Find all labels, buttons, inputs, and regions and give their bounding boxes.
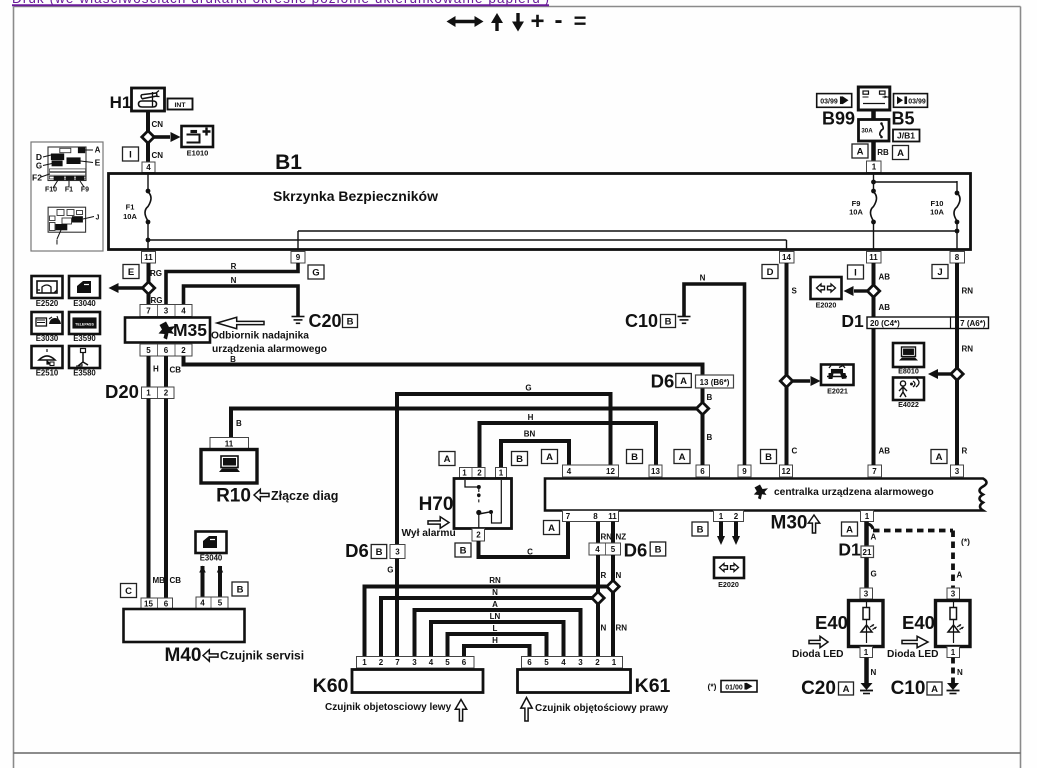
svg-text:13 (B6*): 13 (B6*)	[700, 378, 730, 387]
label E2020 (top)	[816, 301, 837, 310]
svg-text:E40: E40	[902, 612, 935, 633]
connector box B (M30 top2)	[627, 450, 643, 464]
wire label G (E40)	[871, 570, 877, 579]
label K61	[635, 675, 671, 697]
fuse box pin 11 right	[867, 252, 882, 264]
svg-text:9: 9	[742, 467, 747, 476]
pictogram E3590	[69, 312, 100, 334]
svg-text:E: E	[128, 267, 134, 278]
wire label N (C10)	[700, 274, 706, 283]
annotation arrow (M40)	[203, 650, 218, 661]
fuse box pin 1	[867, 161, 882, 173]
label E40 left	[815, 612, 848, 633]
svg-text:6: 6	[164, 346, 169, 355]
internal wire F1 to pin 14	[146, 238, 787, 250]
svg-text:B: B	[655, 544, 662, 555]
svg-text:CN: CN	[152, 151, 164, 160]
label E3040 (service)	[200, 554, 223, 563]
svg-text:11: 11	[869, 253, 878, 262]
svg-text:R: R	[601, 571, 607, 580]
annotation text Zlacze diag	[271, 489, 338, 503]
wire label AB upper	[879, 273, 891, 282]
wire arc H (K60 pin6 to K61 pin6)	[464, 646, 530, 657]
svg-text:RN: RN	[962, 287, 974, 296]
wire B branch to R10	[231, 409, 703, 438]
svg-text:N: N	[492, 588, 498, 597]
D1 pin 21	[861, 546, 874, 558]
wire N (C10 ground to M30 pin9)	[684, 284, 745, 465]
svg-text:B: B	[516, 454, 523, 465]
component H1 (siren) box	[132, 88, 165, 111]
label E2510	[36, 369, 59, 378]
wire label RN (arc)	[489, 576, 501, 585]
E40 right pin 3	[947, 588, 960, 599]
svg-text:G: G	[312, 267, 319, 278]
wire label CN (upper)	[152, 120, 164, 129]
alarm switch H70 box	[454, 479, 512, 529]
svg-text:F9: F9	[81, 187, 89, 194]
wire label MB	[153, 576, 166, 585]
pictogram E2020 (top)	[811, 277, 842, 299]
svg-text:RN: RN	[962, 345, 974, 354]
connector box B (M30 top4)	[761, 450, 777, 464]
fuse F10 label	[930, 199, 944, 217]
annotation text Czujnik servisi	[220, 649, 304, 663]
wire arc A (K60 pin3 to K61 pin3)	[415, 610, 581, 657]
svg-text:E4022: E4022	[898, 400, 919, 409]
svg-text:AB: AB	[879, 303, 891, 312]
arrow to E2020 top	[844, 286, 868, 296]
svg-text:A: A	[897, 148, 904, 159]
wire D20 pin2 to M40 pin6 (CB)	[164, 399, 168, 599]
svg-text:C: C	[527, 548, 533, 557]
connector box G	[308, 265, 324, 279]
svg-text:D6: D6	[624, 540, 648, 561]
label E3040	[73, 299, 96, 308]
svg-text:(*): (*)	[961, 537, 970, 547]
svg-text:7: 7	[395, 658, 400, 667]
label C10 A	[891, 678, 942, 699]
svg-text:E: E	[95, 158, 101, 168]
pictogram E2510	[32, 346, 63, 368]
svg-text:urządzenia alarmowego: urządzenia alarmowego	[212, 344, 327, 355]
wire label B (to M30)	[707, 433, 713, 442]
svg-text:C20: C20	[308, 311, 341, 331]
label (*) dashed	[961, 537, 970, 547]
connector box B (M30 bottom mid)	[692, 522, 708, 536]
label C10	[625, 311, 658, 331]
arrow wire E3040 to M40 pin5	[217, 566, 223, 598]
wire G (M30 pin12 to K60 pin7)	[397, 394, 611, 544]
svg-text:12: 12	[606, 467, 615, 476]
label E3030	[36, 334, 59, 343]
label B5	[891, 109, 914, 129]
ground C20 A	[860, 683, 873, 694]
label H1	[110, 93, 132, 112]
svg-text:(*): (*)	[708, 682, 717, 692]
service sensor M40 box	[124, 609, 245, 642]
wire D20 pin1 to M40 pin15 (MB)	[147, 399, 151, 599]
svg-text:D1: D1	[841, 311, 864, 331]
svg-text:A: A	[957, 571, 963, 580]
dashed wire E40 right to ground (N)	[951, 658, 955, 684]
svg-text:5: 5	[445, 658, 450, 667]
svg-text:20 (C4*): 20 (C4*)	[870, 319, 900, 328]
connector box B (M40)	[232, 582, 248, 596]
svg-text:A: A	[931, 684, 938, 695]
wire label CB (M35)	[170, 366, 182, 375]
M30 bottom pins 1 2	[714, 511, 744, 522]
connector D20 label	[105, 381, 139, 402]
connector box A (battery left)	[852, 144, 868, 158]
svg-text:4: 4	[146, 163, 151, 172]
pictogram E3040 (service)	[196, 532, 227, 554]
wire label L (arc)	[493, 624, 498, 633]
connector box D	[762, 265, 778, 279]
volume sensor K61 box	[518, 670, 631, 693]
svg-text:E2520: E2520	[36, 299, 59, 308]
annotation text Czujnik objetosciowy prawy	[535, 703, 669, 714]
svg-text:G: G	[36, 162, 42, 171]
pictogram E8010	[893, 343, 924, 367]
arrow wire E3040 to M40 pin4	[199, 566, 206, 598]
svg-text:B: B	[665, 316, 672, 327]
H70 top pin 1b	[496, 468, 507, 478]
wire fuse pin14 to M30 pin12b (S/C)	[785, 263, 789, 465]
junction diamond H1	[142, 131, 154, 143]
fuse box B1 (Skrzynka Bezpiecznikow)	[109, 174, 971, 250]
wire label B (M35)	[230, 355, 236, 364]
svg-text:N: N	[700, 274, 706, 283]
wire label R	[231, 262, 237, 271]
connector box I (H1 branch)	[123, 147, 139, 161]
svg-text:A: A	[843, 684, 850, 695]
svg-text:13: 13	[651, 467, 660, 476]
svg-text:S: S	[792, 287, 798, 296]
svg-text:RB: RB	[877, 148, 889, 157]
annotation arrow (E40 right)	[902, 636, 928, 647]
svg-text:LN: LN	[490, 612, 501, 621]
label E2520	[36, 299, 59, 308]
svg-text:15: 15	[144, 599, 153, 608]
svg-text:9: 9	[296, 253, 301, 262]
annotation arrow (K61)	[521, 698, 532, 722]
svg-text:5: 5	[611, 545, 616, 554]
svg-text:B: B	[765, 452, 772, 463]
svg-text:Skrzynka Bezpieczników: Skrzynka Bezpieczników	[273, 188, 438, 204]
M40 pins 15 6	[141, 598, 173, 609]
svg-text:J: J	[96, 215, 100, 222]
wire M35 pin2 to D6 13 (B)	[184, 356, 703, 375]
connector strip D1 20/7	[867, 317, 989, 329]
wire M35 pin4 to ground C20 (N)	[184, 286, 299, 316]
wire label C (M30 12b)	[792, 447, 798, 456]
M30 bottom pins 7 8 11	[563, 511, 619, 522]
battery symbol E1010 box	[182, 126, 214, 147]
svg-text:30A: 30A	[861, 128, 873, 135]
wire label RG upper	[150, 269, 162, 278]
label D6 B (sensors)	[624, 540, 666, 561]
M30 top pin 12b	[780, 465, 793, 477]
connector box A (H70 left)	[439, 452, 455, 466]
wire fusible link to fuse box pin 1	[871, 141, 876, 161]
annotation text Dioda LED right	[887, 649, 939, 660]
svg-text:centralka urządzena alarmowego: centralka urządzena alarmowego	[774, 487, 934, 498]
H70 top pins 1 2	[460, 468, 486, 478]
LED module E40 right box	[936, 599, 971, 647]
svg-text:B: B	[631, 452, 638, 463]
wire label RB	[877, 148, 889, 157]
wire label H (M35)	[153, 365, 159, 374]
svg-text:J/B1: J/B1	[897, 131, 915, 141]
M40 pins 4 5	[196, 597, 228, 609]
label H70	[419, 494, 454, 515]
svg-text:C20: C20	[801, 678, 836, 699]
svg-text:F1: F1	[126, 203, 135, 212]
svg-text:A: A	[548, 523, 555, 534]
svg-text:CN: CN	[152, 120, 164, 129]
pictogram E2021	[821, 365, 854, 386]
wire H (H70 pin2 to M30 pin13)	[480, 423, 657, 477]
connector D6 B label (pin3)	[345, 540, 387, 561]
volume sensor K60 box	[352, 670, 483, 693]
svg-text:7 (A6*): 7 (A6*)	[960, 319, 986, 328]
svg-text:5: 5	[218, 599, 223, 608]
wire M30 pin11 to D6 pin5 (NZ)	[611, 522, 615, 544]
wire label RN (J upper)	[962, 287, 974, 296]
wire label R (K61)	[601, 571, 607, 580]
svg-text:A: A	[871, 533, 877, 542]
svg-text:2: 2	[181, 346, 186, 355]
alarm control unit M30 box	[545, 479, 987, 511]
label E3590	[73, 334, 96, 343]
svg-text:7: 7	[146, 306, 151, 315]
svg-text:4: 4	[561, 658, 566, 667]
annotation text urzadzenia alarmowego	[212, 344, 327, 355]
svg-text:C: C	[125, 586, 132, 597]
wire arc LN (K60 pin4 to K61 pin4)	[431, 622, 564, 657]
dashed branch to (*)	[868, 524, 953, 588]
svg-text:K61: K61	[635, 675, 671, 697]
svg-text:TELEPASS: TELEPASS	[75, 323, 94, 327]
wire label RG lower	[151, 296, 163, 305]
svg-text:11: 11	[225, 439, 234, 448]
svg-text:3: 3	[395, 547, 400, 556]
connector box A (battery right)	[893, 146, 909, 160]
wire label A (dash right)	[957, 571, 963, 580]
wire arc N (K60 pin2)	[381, 598, 592, 657]
svg-text:C: C	[792, 447, 798, 456]
svg-text:3: 3	[578, 658, 583, 667]
svg-text:E2020: E2020	[816, 301, 837, 310]
svg-text:E1010: E1010	[187, 149, 209, 158]
svg-text:Czujnik objętościowy prawy: Czujnik objętościowy prawy	[535, 703, 669, 714]
svg-text:RN: RN	[616, 624, 628, 633]
svg-text:RN: RN	[601, 533, 613, 542]
svg-text:2: 2	[164, 389, 169, 398]
wire B diamond to M30 pin6	[696, 389, 708, 466]
svg-text:B: B	[236, 419, 242, 428]
svg-text:CB: CB	[170, 576, 182, 585]
svg-text:N: N	[231, 276, 237, 285]
wire label G	[525, 384, 531, 393]
junction diamond on AB wire	[867, 285, 879, 297]
wire label G (K60)	[387, 566, 393, 575]
wire label S	[792, 287, 798, 296]
svg-text:E2021: E2021	[827, 387, 848, 396]
svg-text:D20: D20	[105, 381, 139, 402]
svg-text:RG: RG	[150, 269, 162, 278]
svg-text:3: 3	[864, 589, 869, 598]
svg-text:E3030: E3030	[36, 334, 59, 343]
svg-text:1: 1	[719, 512, 724, 521]
svg-text:R10: R10	[216, 486, 251, 507]
connector D6 A 13	[651, 371, 734, 392]
fuse F9 wire	[871, 182, 877, 250]
svg-text:8: 8	[593, 512, 598, 521]
svg-text:H1: H1	[110, 93, 132, 112]
wire label A (dash left)	[871, 533, 877, 542]
connector box A (M30 bottom right)	[842, 522, 858, 536]
fuse box pin 8	[950, 252, 965, 264]
svg-text:D1: D1	[838, 540, 861, 560]
svg-text:AB: AB	[879, 273, 891, 282]
svg-text:B: B	[707, 433, 713, 442]
svg-text:K60: K60	[313, 675, 349, 697]
svg-text:6: 6	[462, 658, 467, 667]
svg-text:R: R	[962, 447, 968, 456]
wire to E1010 with arrow	[154, 132, 181, 142]
wire D1 pin21 to E40 pin3 (G)	[864, 558, 869, 589]
svg-text:4: 4	[181, 306, 186, 315]
svg-text:H70: H70	[419, 494, 454, 515]
svg-text:M40: M40	[165, 645, 202, 666]
svg-text:I: I	[129, 149, 132, 160]
wire label B (R10)	[236, 419, 242, 428]
connector box A (M30 bottom left)	[544, 521, 560, 535]
svg-text:8: 8	[955, 253, 960, 262]
wire battery to fusible link	[871, 110, 876, 120]
svg-text:7: 7	[566, 512, 571, 521]
annotation text Czujnik objetosciowy lewy	[325, 702, 452, 713]
svg-text:01/00: 01/00	[725, 684, 743, 691]
svg-text:B: B	[460, 545, 467, 556]
svg-text:AB: AB	[879, 447, 891, 456]
svg-text:E3590: E3590	[73, 334, 96, 343]
svg-text:A: A	[679, 452, 686, 463]
junction diamond on N arc	[592, 592, 604, 604]
arrow to E8010/E4022	[928, 369, 951, 379]
svg-text:N: N	[957, 668, 963, 677]
H70 bottom pin 2	[472, 529, 485, 542]
label E2021	[827, 387, 848, 396]
svg-text:F2: F2	[32, 173, 42, 183]
svg-text:E3580: E3580	[73, 369, 96, 378]
M30 top pins 4 12	[563, 465, 619, 477]
svg-text:INT: INT	[175, 102, 187, 109]
wire M30 pin1 arrow to E2020	[717, 522, 725, 546]
receiver module M35 box	[125, 318, 210, 343]
wire E40 left to ground (N)	[864, 658, 869, 684]
svg-text:D6: D6	[651, 371, 675, 392]
wire M30 pin8 to D6 pin4 (RN)	[596, 522, 600, 544]
svg-text:+: +	[530, 8, 544, 35]
svg-text:B1: B1	[275, 151, 302, 174]
svg-text:1: 1	[499, 468, 504, 477]
pictogram E4022	[893, 378, 924, 401]
svg-text:B99: B99	[822, 109, 855, 129]
wire label B (lower)	[707, 393, 713, 402]
svg-text:6: 6	[527, 658, 532, 667]
svg-text:4: 4	[200, 599, 205, 608]
svg-text:D: D	[767, 267, 774, 278]
label K60	[313, 675, 349, 697]
svg-text:B: B	[237, 584, 244, 595]
svg-text:1: 1	[146, 389, 151, 398]
annotation arrow (H70)	[428, 517, 449, 528]
svg-text:4: 4	[595, 545, 600, 554]
svg-text:1: 1	[951, 648, 956, 657]
wire label C	[527, 548, 533, 557]
svg-text:A: A	[846, 524, 853, 535]
svg-text:1: 1	[872, 163, 877, 172]
wire M35 pin3 to fuse pin 9 (R)	[166, 263, 298, 304]
svg-text:B5: B5	[891, 109, 914, 129]
svg-text:E8010: E8010	[898, 367, 919, 376]
svg-text:A: A	[936, 452, 943, 463]
svg-text:RG: RG	[151, 296, 163, 305]
label M30	[771, 513, 808, 534]
M35 bottom pins 5 6 2	[140, 344, 192, 356]
svg-text:3: 3	[164, 306, 169, 315]
annotation arrow (E40 left)	[809, 636, 828, 647]
M30 top pin 6	[696, 465, 710, 477]
M30 top pin 3	[951, 465, 964, 477]
svg-text:10A: 10A	[930, 208, 944, 217]
svg-text:3: 3	[412, 658, 417, 667]
annotation text Dioda LED left	[792, 649, 844, 660]
svg-text:R: R	[231, 262, 237, 271]
wire label AB lower	[879, 447, 891, 456]
ground C10	[678, 317, 691, 324]
INT box	[168, 99, 193, 110]
svg-text:CB: CB	[170, 366, 182, 375]
diagnostic connector R10 box	[201, 450, 257, 484]
label E2020 (bottom)	[718, 580, 739, 589]
svg-text:Złącze diag: Złącze diag	[271, 489, 338, 503]
svg-text:M35: M35	[173, 320, 207, 340]
svg-text:A: A	[857, 146, 864, 157]
hyperlink title (cut off at top)	[12, 0, 549, 6]
connector box B (C20)	[343, 315, 358, 328]
annotation text Wyl alarmu	[402, 528, 456, 539]
svg-text:4: 4	[567, 467, 572, 476]
svg-text:21: 21	[863, 548, 872, 557]
wire M35 pin5 to D20 pin1 (H)	[147, 356, 151, 387]
svg-text:1: 1	[865, 512, 870, 521]
svg-text:1: 1	[462, 468, 467, 477]
svg-text:F1: F1	[65, 187, 73, 194]
svg-text:A: A	[680, 376, 687, 387]
svg-text:6: 6	[700, 467, 705, 476]
svg-text:G: G	[871, 570, 877, 579]
svg-text:L: L	[493, 624, 498, 633]
svg-text:03/99: 03/99	[820, 98, 838, 105]
annotation arrow (R10)	[254, 489, 269, 500]
label D1 (connector strip)	[841, 311, 864, 331]
wire label RN (K61 low)	[616, 624, 628, 633]
svg-text:6: 6	[164, 599, 169, 608]
